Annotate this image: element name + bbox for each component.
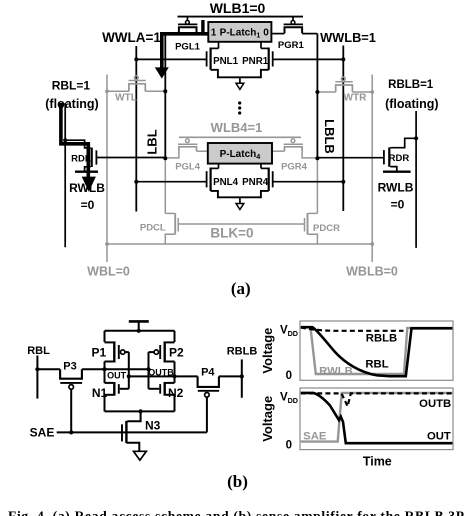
junction OUTB/P1-N1 gate xyxy=(127,374,131,378)
junction SAE/P3 gate xyxy=(69,430,73,434)
svg-text:WLB1=0: WLB1=0 xyxy=(210,0,266,16)
junction WTL/LBL xyxy=(163,89,167,93)
svg-text:0: 0 xyxy=(286,370,292,382)
node OUT row xyxy=(107,371,127,381)
svg-text:RBLB: RBLB xyxy=(227,346,258,358)
wire N2 source to tail rail xyxy=(174,395,176,412)
net BLK (gray, =0) gate line xyxy=(178,224,304,241)
svg-text:PNL1: PNL1 xyxy=(213,56,239,67)
wire P1/N1 gate column (to OUTB) xyxy=(128,352,130,389)
wire PGR1 to LBLB corner xyxy=(302,33,317,35)
svg-text:RBL=1: RBL=1 xyxy=(52,78,91,92)
wire RDR gate to LBLB xyxy=(317,157,384,159)
transistor PDCR (gray pre-discharge right) xyxy=(305,213,341,244)
transistor N3 (tail NMOS, SAE) xyxy=(122,411,161,451)
svg-text:P3: P3 xyxy=(63,361,76,373)
net LBL (local bit line) xyxy=(145,34,179,159)
net WWLA (=1) xyxy=(102,30,161,212)
transistor PGR1 (PMOS pass gate right, row 1) xyxy=(278,17,305,51)
svg-text:SAE: SAE xyxy=(303,430,327,442)
junction RBLB/RDR drain xyxy=(414,136,418,140)
junction rail/WBLB xyxy=(370,242,374,246)
net SAE (sense amp enable) xyxy=(30,425,207,439)
svg-text:Voltage: Voltage xyxy=(260,328,275,374)
waveform plot 2 (OUT/OUTB/SAE) frame xyxy=(300,388,453,450)
power VDD bar xyxy=(129,321,149,330)
junction VDD rail xyxy=(137,329,141,333)
net LBLB (local bit line bar) xyxy=(317,34,336,159)
vertical ellipsis dots between rows xyxy=(238,101,241,114)
wire P3 to OUT node xyxy=(82,368,149,370)
node OUTB row xyxy=(129,367,174,377)
curve OUT (black solid) xyxy=(301,393,453,443)
wire RBL to P3 xyxy=(37,368,60,370)
curve RBLB (black dashed) xyxy=(301,328,404,331)
wire PNR4 gate to WWLB xyxy=(273,181,344,183)
svg-text:LBLB: LBLB xyxy=(322,119,337,154)
svg-text:(floating): (floating) xyxy=(385,97,438,111)
svg-text:SAE: SAE xyxy=(30,425,55,439)
net WBL (gray write bit line, =0) xyxy=(87,75,130,279)
transistor PNL1 / PNR1 (pull-down NMOS pair, row 1) xyxy=(207,48,273,90)
junction WWLA/PNL4 xyxy=(134,180,138,184)
transistor P3 (PMOS pass, left) xyxy=(60,361,82,433)
curve SAE (gray) xyxy=(301,393,453,442)
svg-text:PGR4: PGR4 xyxy=(281,161,308,172)
wire latch1 right node to LBLB xyxy=(271,33,284,35)
svg-text:(b): (b) xyxy=(227,472,248,491)
junction rail/WBL xyxy=(105,242,109,246)
svg-text:1: 1 xyxy=(211,28,217,39)
svg-text:RWLB: RWLB xyxy=(319,366,353,378)
svg-text:OUT: OUT xyxy=(427,430,451,442)
wire P2 drain to OUTB row xyxy=(174,362,176,383)
svg-text:RBL: RBL xyxy=(365,359,388,371)
latch U1 : P-Latch1 storage cell (1 / 0) xyxy=(208,22,271,42)
wire P2/N2 gate column (to OUT) xyxy=(148,352,150,389)
wire PNL4 gate to WWLA xyxy=(136,181,206,183)
waveform plot 1 (RBL/RBLB/RWLB) frame xyxy=(300,321,453,380)
wire PNL1 gate to WWLA xyxy=(136,58,206,60)
wire P4 to RBLB xyxy=(219,375,242,377)
curve RBL (black solid) xyxy=(301,327,453,376)
svg-text:Time: Time xyxy=(363,454,392,468)
wire P1 drain to OUT row xyxy=(104,362,106,383)
svg-text:(floating): (floating) xyxy=(45,97,98,111)
highlighted read path (thick) RBL down through RDL to RWLB xyxy=(61,103,96,192)
latch U4 : P-Latch4 storage cell xyxy=(208,143,272,164)
junction RBL/OUT row xyxy=(35,367,39,371)
net RBLB (sense amp input right) xyxy=(227,346,258,398)
net LBL gray continuation to PDCL xyxy=(164,158,166,213)
svg-text:OUTB: OUTB xyxy=(419,398,451,410)
svg-text:WTL: WTL xyxy=(115,93,137,104)
svg-text:LBL: LBL xyxy=(145,129,160,154)
svg-text:PNR1: PNR1 xyxy=(242,56,269,67)
wire PNR1 gate to WWLB xyxy=(273,58,344,60)
svg-text:(a): (a) xyxy=(231,279,251,298)
svg-text:RDR: RDR xyxy=(389,153,410,164)
net RBL (read bit line, =1 floating) xyxy=(45,78,98,247)
svg-text:P-Latch4: P-Latch4 xyxy=(220,149,261,161)
wire latch4 to PNL4/PNR4 stubs xyxy=(218,164,220,169)
junction RBL/RDL drain xyxy=(63,138,67,142)
svg-text:PDCR: PDCR xyxy=(313,223,340,234)
svg-text:P4: P4 xyxy=(201,366,215,378)
transistor P1 (PMOS, cross-coupled left) xyxy=(91,331,128,363)
junction PGL4/LBL xyxy=(163,156,167,160)
transistor N2 (NMOS, cross-coupled right) xyxy=(149,382,184,400)
transistor RDR (read NMOS, right) xyxy=(383,147,411,171)
svg-text:0: 0 xyxy=(263,28,269,39)
svg-text:PGL4: PGL4 xyxy=(175,161,201,172)
transistor P2 (PMOS, cross-coupled right) xyxy=(149,331,184,363)
ground symbol xyxy=(134,451,147,460)
svg-text:VDD: VDD xyxy=(280,392,298,406)
transistor P4 (PMOS pass, right) xyxy=(198,366,220,432)
svg-text:WLB4=1: WLB4=1 xyxy=(211,120,263,135)
svg-text:WBLB=0: WBLB=0 xyxy=(346,264,398,278)
wire tail rail xyxy=(105,410,175,412)
svg-text:WTR: WTR xyxy=(344,92,368,103)
svg-text:Voltage: Voltage xyxy=(260,396,275,442)
curve RWLB (gray) xyxy=(301,327,453,374)
junction OUT row / left column xyxy=(102,367,106,371)
svg-text:P-Latch1: P-Latch1 xyxy=(220,28,261,40)
svg-text:OUT: OUT xyxy=(107,371,127,381)
wire RDR drain xyxy=(390,138,416,147)
junction WTR/LBLB xyxy=(315,90,319,94)
junction WWLB/PNR4 xyxy=(341,180,345,184)
svg-text:RBLB: RBLB xyxy=(366,333,397,345)
svg-text:N3: N3 xyxy=(145,418,161,432)
svg-text:RBL: RBL xyxy=(27,345,50,357)
svg-text:RWLB: RWLB xyxy=(378,181,414,195)
svg-text:PGR1: PGR1 xyxy=(278,40,305,51)
transistor WTL (gray write pass, left) xyxy=(107,76,165,104)
net RBLB (read bit line bar, =1 floating) xyxy=(385,79,438,248)
svg-text:PNL4: PNL4 xyxy=(213,177,239,188)
net RBL (sense amp input left) xyxy=(27,345,50,399)
wire latch1 to PNL1/PNR1 stubs xyxy=(218,42,220,49)
highlighted read path (thick) from P-Latch1 through PGL1 down LBL xyxy=(155,20,209,79)
junction PGR4/LBLB xyxy=(315,156,319,160)
wire RDL drain xyxy=(65,140,90,148)
net WLB4 (gray word line 4, =1) xyxy=(179,120,301,138)
junction OUT/P2-N2 gate xyxy=(146,367,150,371)
svg-text:WWLA=1: WWLA=1 xyxy=(102,30,161,45)
transistor WTR (gray write pass, right) xyxy=(317,77,372,103)
transistor N1 (NMOS, cross-coupled left) xyxy=(92,382,129,400)
curve OUTB (black dashed) xyxy=(301,393,453,406)
svg-text:RBLB=1: RBLB=1 xyxy=(388,79,434,91)
svg-text:0: 0 xyxy=(286,440,292,452)
svg-text:WWLB=1: WWLB=1 xyxy=(320,30,376,45)
junction RBLB xyxy=(240,374,244,378)
svg-text:=0: =0 xyxy=(81,198,95,212)
wire VDD rail xyxy=(105,330,175,332)
svg-text:PDCL: PDCL xyxy=(140,223,166,234)
label RWLB=0 (left read word line bar) xyxy=(69,181,105,212)
wire OUTB row to P4 xyxy=(148,375,197,377)
wire RDL gate to LBL xyxy=(96,157,165,159)
transistor PGR4 (gray PMOS pass gate right, row 4) xyxy=(272,139,317,173)
svg-text:P2: P2 xyxy=(169,346,184,360)
junction WTR/WBLB xyxy=(370,90,374,94)
junction tail rail / N3 xyxy=(139,409,143,413)
net LBLB gray continuation to PDCR xyxy=(316,158,318,213)
net WBLB (gray write bit line bar, =0) xyxy=(346,75,398,279)
junction WWLA/PNL1 xyxy=(134,57,138,61)
svg-text:P1: P1 xyxy=(91,346,106,360)
transistor PGL1 (PMOS pass gate left, row 1) xyxy=(175,17,201,53)
transistor PGL4 (gray PMOS pass gate left, row 4) xyxy=(165,139,208,173)
svg-text:=0: =0 xyxy=(391,198,405,212)
junction WTL/WBL xyxy=(105,89,109,93)
junction WWLB/PNR1 xyxy=(341,57,345,61)
svg-text:WBL=0: WBL=0 xyxy=(87,264,130,278)
transistor RDL (read NMOS, left) xyxy=(71,148,98,172)
svg-text:PNR4: PNR4 xyxy=(242,177,269,188)
wire N1 source to tail rail xyxy=(104,395,106,412)
svg-text:Fig. 4. (a) Read access scheme: Fig. 4. (a) Read access scheme and (b) s… xyxy=(8,509,464,516)
svg-text:VDD: VDD xyxy=(280,324,298,338)
transistor PDCL (gray pre-discharge left) xyxy=(140,213,178,244)
svg-text:N2: N2 xyxy=(168,386,184,400)
svg-text:BLK=0: BLK=0 xyxy=(210,226,253,241)
svg-text:PGL1: PGL1 xyxy=(175,41,201,52)
transistor PNL4 / PNR4 (pull-down NMOS pair, row 4) xyxy=(207,168,273,210)
junction OUTB row / right column xyxy=(172,374,176,378)
wire gray bottom rail WBL-PDCL-PDCR-WBLB xyxy=(107,243,372,245)
net WWLB (=1) xyxy=(320,30,376,211)
net WLB1 (word line bar 1, =0) xyxy=(178,0,304,17)
label RWLB=0 (right read word line bar) xyxy=(378,181,414,212)
